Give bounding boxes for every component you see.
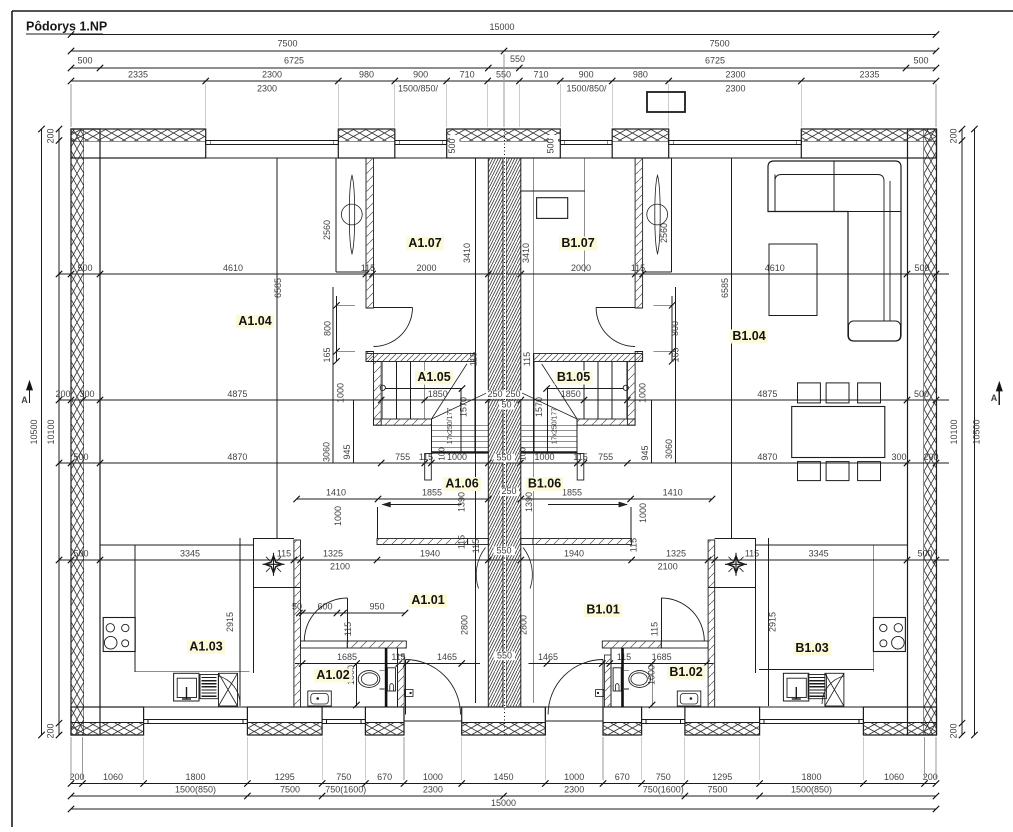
svg-text:A1.03: A1.03 xyxy=(189,640,222,654)
svg-text:250: 250 xyxy=(505,389,520,399)
svg-text:1325: 1325 xyxy=(666,549,686,559)
vertical dim 3060/945 A xyxy=(332,287,334,463)
svg-text:10100: 10100 xyxy=(46,419,56,444)
svg-text:710: 710 xyxy=(460,70,475,80)
svg-text:1000: 1000 xyxy=(423,772,443,782)
wardrobe leaf B xyxy=(655,175,660,254)
bottom wall pier 684.9-759.6 xyxy=(685,707,760,735)
bottom wall pier 247.4-322.1 xyxy=(247,707,322,735)
room label B1.01 xyxy=(584,603,622,617)
svg-text:2560: 2560 xyxy=(322,220,332,240)
door B1.02 leaf+swing xyxy=(660,598,662,641)
top wall pier 612.2-668.7 xyxy=(612,129,669,158)
svg-text:750: 750 xyxy=(336,772,351,782)
room label A1.04 xyxy=(236,315,274,329)
flush A xyxy=(390,684,394,691)
svg-text:500: 500 xyxy=(913,56,928,66)
stair rail A xyxy=(460,389,462,452)
page border left xyxy=(11,11,13,827)
svg-text:1570: 1570 xyxy=(534,397,544,417)
wardrobe circle B xyxy=(647,204,668,225)
svg-text:10100: 10100 xyxy=(949,419,959,444)
svg-text:1000: 1000 xyxy=(638,383,648,403)
section marker A left xyxy=(29,384,31,403)
svg-text:7500: 7500 xyxy=(707,785,727,795)
interior dim line y=463 xyxy=(59,462,949,464)
wall stub A xyxy=(377,507,379,539)
kitchen nook lines A xyxy=(100,544,253,546)
room label B1.04 xyxy=(730,330,768,344)
door A1.07-A leaf+swing xyxy=(374,307,413,309)
svg-text:115: 115 xyxy=(650,622,660,636)
svg-text:3345: 3345 xyxy=(180,549,200,559)
svg-text:1295: 1295 xyxy=(712,772,732,782)
svg-text:6585: 6585 xyxy=(720,278,730,298)
cistern A xyxy=(387,668,395,691)
svg-text:2300: 2300 xyxy=(564,785,584,795)
svg-text:1940: 1940 xyxy=(564,549,584,559)
room label B1.06 xyxy=(526,477,564,491)
washbasin B xyxy=(677,691,701,706)
svg-text:1685: 1685 xyxy=(337,652,357,662)
room label A1.01 xyxy=(409,594,447,608)
left dim line 10100 xyxy=(58,129,60,735)
svg-text:B1.05: B1.05 xyxy=(557,370,590,384)
svg-text:950: 950 xyxy=(369,602,384,612)
svg-text:1000: 1000 xyxy=(564,772,584,782)
room label B1.03 xyxy=(793,642,831,656)
svg-text:2000: 2000 xyxy=(571,263,591,273)
svg-text:50: 50 xyxy=(501,400,511,410)
bottom dim chain xyxy=(71,783,936,785)
sink unit A xyxy=(174,673,199,701)
top window 560.3-612.2 xyxy=(560,139,612,141)
svg-text:115: 115 xyxy=(745,549,759,559)
svg-text:165: 165 xyxy=(322,347,332,362)
svg-text:550: 550 xyxy=(496,546,511,556)
compass symbol B xyxy=(725,553,747,576)
flush B xyxy=(615,684,619,691)
top wall pier 446.7-560.3 xyxy=(447,129,561,158)
svg-text:3410: 3410 xyxy=(462,243,472,263)
room label B1.02 xyxy=(667,666,705,680)
svg-text:600: 600 xyxy=(317,602,332,612)
vertical dim 2915 line A xyxy=(239,538,241,706)
chair top xyxy=(826,383,849,403)
entrance threshold A xyxy=(404,720,462,722)
room label A1.07 xyxy=(406,237,444,251)
svg-text:1450: 1450 xyxy=(493,772,513,782)
svg-text:800: 800 xyxy=(670,321,680,336)
svg-text:1410: 1410 xyxy=(663,488,683,498)
svg-text:755: 755 xyxy=(395,452,410,462)
door swing A1.06->A1.01 xyxy=(476,548,485,589)
svg-text:3410: 3410 xyxy=(521,243,531,263)
svg-text:980: 980 xyxy=(359,70,374,80)
bottom wall pier 863.4-936.5 xyxy=(863,707,936,735)
svg-text:B1.01: B1.01 xyxy=(586,603,619,617)
svg-text:17x250/177: 17x250/177 xyxy=(447,408,454,445)
svg-text:1855: 1855 xyxy=(422,488,442,498)
cooktop A xyxy=(103,618,135,652)
svg-text:A: A xyxy=(991,393,998,403)
bottom dim row2 xyxy=(71,795,936,797)
stair winder band A (W4-A) xyxy=(374,419,432,425)
B1.07 cabinet rect xyxy=(537,198,568,219)
svg-text:4870: 4870 xyxy=(227,452,247,462)
legend box top centre xyxy=(647,92,685,112)
cistern B xyxy=(613,668,621,691)
svg-text:4870: 4870 xyxy=(757,452,777,462)
svg-text:755: 755 xyxy=(598,452,613,462)
interior face lines xyxy=(100,157,908,159)
chair top xyxy=(798,383,821,403)
bottom window 641.6-684.9 xyxy=(642,719,685,721)
stair winder band B (W4-B) xyxy=(577,419,635,425)
svg-text:2915: 2915 xyxy=(225,612,235,632)
coffee table B1.04 xyxy=(769,244,817,316)
svg-text:2100: 2100 xyxy=(658,562,678,572)
svg-text:200: 200 xyxy=(949,723,959,738)
kitchen wall B (V2-B) xyxy=(708,540,715,707)
svg-text:1500(850): 1500(850) xyxy=(791,785,832,795)
room label B1.07 xyxy=(559,237,597,251)
vertical dim 6585 A xyxy=(276,158,278,538)
corner unit B xyxy=(825,673,844,706)
svg-text:A1.01: A1.01 xyxy=(411,593,444,607)
svg-text:945: 945 xyxy=(640,445,650,460)
sink unit B xyxy=(783,673,808,701)
top wall pier 71-205.7 xyxy=(71,129,206,158)
entrance door A swing xyxy=(406,660,461,715)
svg-text:2300: 2300 xyxy=(423,785,443,795)
svg-text:2560: 2560 xyxy=(659,223,669,243)
dim line 1000 WC B xyxy=(651,664,653,707)
stair cut line A xyxy=(432,451,489,453)
svg-text:1410: 1410 xyxy=(326,488,346,498)
tap A xyxy=(186,687,188,699)
wall B1.02 top (W8-B) xyxy=(602,641,661,648)
chair bottom xyxy=(858,462,881,481)
chair bottom xyxy=(826,462,849,481)
bottom wall pier 461.7-545.3 xyxy=(462,707,546,735)
svg-text:2300: 2300 xyxy=(725,70,745,80)
svg-text:15000: 15000 xyxy=(491,798,516,808)
arrow line y=504.5 xyxy=(382,504,461,506)
top window 205.7-338.3 xyxy=(206,139,339,141)
chair top xyxy=(858,383,881,403)
stair walk line B xyxy=(542,364,577,419)
svg-text:1685: 1685 xyxy=(652,652,672,662)
toilet B xyxy=(629,671,651,688)
room label A1.06 xyxy=(443,477,481,491)
wall A1.06/A1.01 (W5-A) xyxy=(377,539,468,545)
svg-text:1000: 1000 xyxy=(647,665,657,685)
svg-text:7500: 7500 xyxy=(277,39,297,49)
svg-text:1570: 1570 xyxy=(459,397,469,417)
entrance threshold B xyxy=(545,720,603,722)
interior dim line y=400 xyxy=(59,399,949,401)
room label A1.02 xyxy=(314,669,352,683)
svg-text:900: 900 xyxy=(579,70,594,80)
svg-text:300: 300 xyxy=(891,452,906,462)
svg-text:500: 500 xyxy=(77,56,92,66)
newel B xyxy=(623,385,628,390)
WC install wall B (bold) xyxy=(621,648,624,707)
svg-text:7500: 7500 xyxy=(710,39,730,49)
svg-text:4610: 4610 xyxy=(223,263,243,273)
svg-text:3060: 3060 xyxy=(664,439,674,459)
svg-text:A1.05: A1.05 xyxy=(417,370,450,384)
svg-text:200: 200 xyxy=(949,128,959,143)
svg-text:2100: 2100 xyxy=(330,562,350,572)
svg-text:1940: 1940 xyxy=(420,549,440,559)
bottom window 759.6-863.4 xyxy=(760,719,864,721)
stair newel wall A xyxy=(425,454,432,481)
svg-text:1060: 1060 xyxy=(103,772,123,782)
svg-text:800: 800 xyxy=(323,321,333,336)
stair well left wall A (W3-A) xyxy=(374,362,382,426)
dim line 1685/115/1465 y=663.5 xyxy=(295,663,480,665)
vertical dim 800/165 B (door B1.07) xyxy=(671,296,673,362)
svg-text:945: 945 xyxy=(342,444,352,459)
bottom dim 15000 xyxy=(71,808,936,810)
WC install wall A (bold) xyxy=(385,648,388,707)
svg-text:115: 115 xyxy=(343,622,353,636)
vertical dim 800/165 A (door A1.07) xyxy=(336,296,338,362)
svg-text:1325: 1325 xyxy=(323,549,343,559)
svg-text:A1.04: A1.04 xyxy=(238,314,271,328)
vertical dim 3410 A xyxy=(475,158,477,703)
toilet A xyxy=(358,671,380,688)
wall B1.06/B1.01 (W5-B) xyxy=(533,539,632,545)
svg-text:A1.07: A1.07 xyxy=(408,236,441,250)
kitchen wall A (V2-A) xyxy=(294,540,301,707)
svg-text:3345: 3345 xyxy=(809,549,829,559)
stair dim 1850 A xyxy=(385,388,462,390)
svg-text:2335: 2335 xyxy=(128,70,148,80)
wall B1.04/B1.07 (W1-B) xyxy=(635,158,643,308)
svg-text:B1.04: B1.04 xyxy=(732,329,765,343)
svg-text:1465: 1465 xyxy=(538,652,558,662)
doormat B xyxy=(596,690,605,697)
svg-text:1850: 1850 xyxy=(428,389,448,399)
entrance door B swing xyxy=(548,660,603,715)
bottom wall pier 603-641.6 xyxy=(603,707,642,735)
svg-text:900: 900 xyxy=(413,70,428,80)
svg-text:200: 200 xyxy=(55,389,70,399)
svg-text:7500: 7500 xyxy=(280,785,300,795)
interior dim line y=274 xyxy=(59,273,949,275)
svg-text:2300: 2300 xyxy=(262,70,282,80)
stair walk line A xyxy=(432,364,467,419)
svg-text:2800: 2800 xyxy=(460,615,470,635)
svg-text:100: 100 xyxy=(438,447,447,461)
svg-text:550: 550 xyxy=(496,70,511,80)
appliance B (striped) xyxy=(808,675,826,699)
doormat A xyxy=(405,690,414,697)
top wall pier 801.3-936.5 xyxy=(801,129,936,158)
wardrobe leaf A xyxy=(349,175,354,254)
kitchen B counter xyxy=(873,545,875,672)
title underline xyxy=(26,33,103,35)
sofa B1.04 xyxy=(768,161,901,341)
stairs B1.05 xyxy=(625,362,627,420)
svg-text:A: A xyxy=(21,395,28,405)
wall A1.07/A1.05 (W2-A) xyxy=(366,354,475,362)
svg-text:165: 165 xyxy=(671,347,681,362)
svg-text:2335: 2335 xyxy=(859,70,879,80)
bottom wall pier 71-143.6 xyxy=(71,707,144,735)
svg-text:1500(850): 1500(850) xyxy=(175,785,216,795)
washbasin A xyxy=(308,691,332,706)
door B1.07-B leaf+swing xyxy=(596,307,635,309)
cooktop B xyxy=(873,618,905,652)
svg-text:115: 115 xyxy=(522,352,532,366)
stair well right wall B (W3-B) xyxy=(627,362,635,426)
svg-text:17x250/177: 17x250/177 xyxy=(552,408,559,445)
svg-text:A1.02: A1.02 xyxy=(316,668,349,682)
svg-text:2300: 2300 xyxy=(725,84,745,94)
svg-text:2915: 2915 xyxy=(768,612,778,632)
sofa chaise cushion xyxy=(849,321,901,341)
svg-text:1800: 1800 xyxy=(801,772,821,782)
svg-text:10500: 10500 xyxy=(972,419,982,444)
svg-text:1500/850/: 1500/850/ xyxy=(566,84,607,94)
dim row 15000 xyxy=(71,34,936,36)
dim line 50/600/950 y=613 A1.01 xyxy=(299,612,405,614)
dim line 1000 WC A xyxy=(356,664,358,707)
svg-text:710: 710 xyxy=(533,70,548,80)
svg-text:1295: 1295 xyxy=(275,772,295,782)
dim row 500/6725/550 xyxy=(71,67,936,69)
room label B1.05 xyxy=(555,371,593,385)
svg-text:2000: 2000 xyxy=(416,263,436,273)
chair bottom xyxy=(798,462,821,481)
wardrobe niche B xyxy=(670,158,672,272)
door swing B1.06->B1.01 xyxy=(523,548,532,589)
section marker A right xyxy=(998,385,1000,405)
svg-text:115: 115 xyxy=(617,652,631,662)
interior dim line y=560 xyxy=(59,559,949,561)
vertical dim 3060/945 B xyxy=(675,287,677,463)
kitchen A counter xyxy=(134,545,136,672)
right dim line 10100 xyxy=(961,129,963,735)
dim row 2335/2300/980/900/710/550 xyxy=(71,80,936,82)
svg-text:1800: 1800 xyxy=(185,772,205,782)
svg-text:670: 670 xyxy=(377,772,392,782)
svg-text:1060: 1060 xyxy=(884,772,904,782)
wardrobe niche A xyxy=(335,158,337,272)
dim row 7500+7500 xyxy=(71,50,936,52)
corner unit A xyxy=(219,673,238,706)
wall B1.07/B1.05 (W2-B) xyxy=(534,354,643,362)
room label A1.03 xyxy=(187,640,225,654)
svg-text:1500/850/: 1500/850/ xyxy=(398,84,439,94)
svg-text:1000: 1000 xyxy=(336,383,346,403)
svg-text:550: 550 xyxy=(497,651,512,661)
svg-text:6585: 6585 xyxy=(273,278,283,298)
svg-text:980: 980 xyxy=(633,70,648,80)
door A1.02 leaf+swing xyxy=(346,598,348,641)
svg-text:115: 115 xyxy=(277,549,291,559)
bottom window 322.1-365.4 xyxy=(322,719,365,721)
dining table B xyxy=(792,407,885,458)
svg-text:670: 670 xyxy=(615,772,630,782)
svg-text:550: 550 xyxy=(510,54,525,64)
kitchen nook lines B xyxy=(755,544,907,546)
closet top B xyxy=(715,538,756,540)
top window 394.8-446.7 xyxy=(395,139,447,141)
tap B xyxy=(795,687,797,699)
svg-text:1000: 1000 xyxy=(638,503,648,523)
wall A1.02 top (W8-A) xyxy=(301,641,348,648)
svg-text:4610: 4610 xyxy=(765,263,785,273)
svg-text:750: 750 xyxy=(656,772,671,782)
wall stub B xyxy=(630,507,632,539)
svg-text:4875: 4875 xyxy=(227,389,247,399)
bottom window 143.6-247.4 xyxy=(144,719,248,721)
vertical dim 6585 B xyxy=(731,158,733,538)
dim line 1410/1855 y=499 xyxy=(297,498,489,500)
vertical dim 3410 B xyxy=(532,158,534,703)
svg-text:1390: 1390 xyxy=(457,492,467,512)
party wall (double) xyxy=(488,158,521,707)
svg-text:550: 550 xyxy=(496,453,511,463)
svg-text:1390: 1390 xyxy=(524,492,534,512)
party wall axis dotted xyxy=(504,129,506,735)
svg-text:2300: 2300 xyxy=(257,84,277,94)
svg-text:B1.06: B1.06 xyxy=(528,477,561,491)
svg-text:3060: 3060 xyxy=(321,442,331,462)
svg-text:A1.06: A1.06 xyxy=(445,477,478,491)
left exterior wall xyxy=(71,129,100,735)
closet top A xyxy=(253,538,294,540)
svg-text:B1.07: B1.07 xyxy=(561,236,594,250)
svg-text:Pôdorys 1.NP: Pôdorys 1.NP xyxy=(26,20,107,34)
svg-text:750(1600): 750(1600) xyxy=(325,785,366,795)
svg-text:4875: 4875 xyxy=(757,389,777,399)
svg-text:250: 250 xyxy=(487,389,502,399)
svg-text:750(1600): 750(1600) xyxy=(643,785,684,795)
svg-text:115: 115 xyxy=(471,539,481,553)
svg-text:1000: 1000 xyxy=(333,506,343,526)
svg-text:1855: 1855 xyxy=(562,488,582,498)
top wall pier 338.3-394.8 xyxy=(338,129,395,158)
svg-text:500: 500 xyxy=(447,138,457,153)
svg-text:B1.02: B1.02 xyxy=(669,665,702,679)
top window 668.7-801.3 xyxy=(669,139,802,141)
bottom wall pier 365.4-404 xyxy=(365,707,404,735)
svg-text:15000: 15000 xyxy=(489,22,514,32)
svg-text:B1.03: B1.03 xyxy=(795,641,828,655)
stairs A1.05 xyxy=(381,362,383,420)
appliance A (striped) xyxy=(200,675,218,699)
svg-text:6725: 6725 xyxy=(705,56,725,66)
svg-text:500: 500 xyxy=(546,138,556,153)
svg-text:10500: 10500 xyxy=(29,419,39,444)
svg-text:200: 200 xyxy=(923,772,938,782)
stair rail B xyxy=(546,389,548,452)
svg-text:1850: 1850 xyxy=(561,389,581,399)
svg-text:200: 200 xyxy=(46,128,56,143)
right dim line 10500 xyxy=(973,129,975,735)
svg-text:1465: 1465 xyxy=(437,652,457,662)
svg-text:200: 200 xyxy=(46,723,56,738)
stair dim 1850 B xyxy=(547,388,624,390)
svg-text:250: 250 xyxy=(501,486,516,496)
B1.07 closet partition xyxy=(584,158,586,272)
